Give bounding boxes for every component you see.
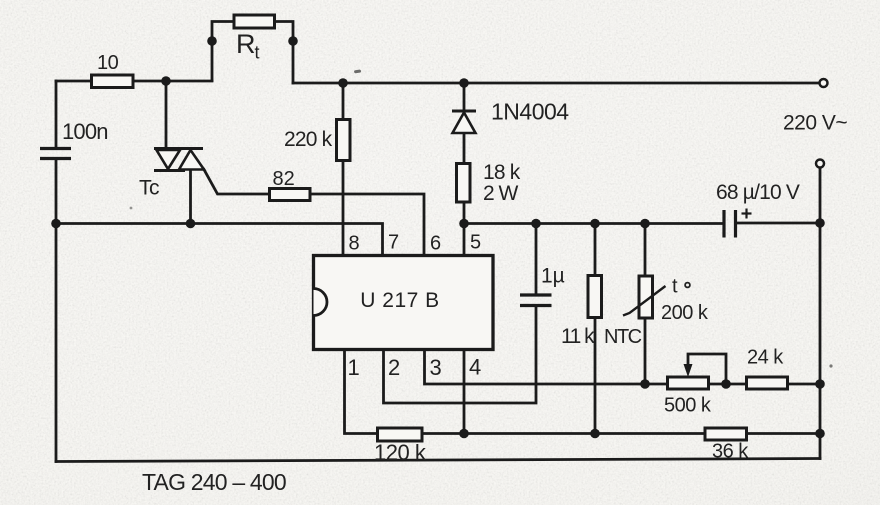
IC U217B body	[314, 256, 494, 350]
wire diode column / 18k / pin 5	[463, 83, 466, 256]
svg-text:10: 10	[97, 52, 119, 74]
capacitor 68u plus sign	[742, 209, 752, 219]
node Rt left	[207, 36, 217, 46]
IC U217B notch	[314, 289, 328, 316]
svg-text:Tc: Tc	[139, 177, 159, 200]
node NTC bottom	[640, 379, 650, 389]
capacitor 68u plates	[724, 210, 736, 238]
node right rail row 433	[815, 429, 825, 439]
wire bottom rail	[56, 459, 820, 462]
wire triac MT2	[165, 81, 168, 149]
svg-text:11 k: 11 k	[561, 325, 595, 348]
wire 1u capacitor top	[535, 224, 538, 295]
capacitor 1u plates	[520, 295, 552, 306]
svg-text:200 k: 200 k	[661, 302, 709, 324]
thermistor NTC 200k body	[639, 276, 653, 318]
node diode top	[459, 78, 469, 88]
wire 1u capacitor bottom to pin 2	[384, 306, 537, 404]
svg-text:220 k: 220 k	[284, 128, 333, 151]
node pin 4 bottom	[459, 429, 469, 439]
wire 68u capacitor to right rail	[737, 222, 821, 225]
potentiometer 500k body	[668, 377, 709, 389]
node right rail / 68u	[815, 218, 825, 228]
svg-text:3: 3	[430, 355, 442, 380]
wire left rail to pin 7	[56, 224, 383, 257]
wire pin 1 to bottom 120k / 36k row	[345, 349, 821, 434]
node 1u top	[531, 219, 541, 229]
wire left vertical below capacitor C 100n	[55, 159, 58, 462]
svg-text:36 k: 36 k	[712, 441, 749, 463]
node wiper / 24k	[721, 379, 731, 389]
resistor 10	[92, 75, 134, 88]
svg-text:t: t	[672, 276, 678, 298]
svg-text:2 W: 2 W	[483, 182, 519, 205]
diode 1N4004 triangle	[453, 113, 476, 134]
node pin 5	[459, 219, 469, 229]
resistor 36k	[705, 428, 747, 440]
svg-text:8: 8	[349, 233, 360, 255]
wire triac MT1	[189, 170, 192, 224]
svg-text:7: 7	[388, 232, 399, 254]
svg-text:500 k: 500 k	[664, 395, 712, 417]
svg-text:120 k: 120 k	[374, 440, 427, 465]
wire top-left horizontal to resistor 10	[56, 80, 212, 83]
wire potentiometer wiper	[688, 354, 726, 384]
resistor 120k	[378, 428, 423, 441]
triac Tc right triangle	[179, 150, 204, 170]
svg-text:TAG 240 – 400: TAG 240 – 400	[142, 469, 286, 495]
svg-text:5: 5	[470, 232, 481, 254]
node 11k bottom	[590, 429, 600, 439]
svg-text:2: 2	[388, 355, 400, 380]
svg-text:100n: 100n	[62, 119, 108, 144]
svg-text:220 V~: 220 V~	[783, 112, 847, 135]
resistor 24k	[747, 377, 788, 389]
svg-text:NTC: NTC	[604, 326, 642, 348]
capacitor 100n plates	[40, 149, 71, 159]
node 11k top	[590, 219, 600, 229]
resistor 11k	[588, 276, 602, 318]
terminal 220V top	[820, 79, 828, 87]
wire right vertical rail	[819, 168, 822, 459]
svg-text:4: 4	[469, 355, 481, 380]
wire pin 3 row through 500k and 24k	[425, 349, 821, 384]
node NTC top	[640, 219, 650, 229]
resistor 82	[270, 189, 311, 201]
thermistor NTC diagonal stroke	[623, 286, 666, 316]
potentiometer 500k wiper arrowhead	[684, 364, 693, 377]
wire left vertical above capacitor C 100n	[55, 81, 58, 148]
terminal 220V bottom	[816, 160, 824, 168]
node resistor10 / triac / Rt	[161, 76, 171, 86]
triac Tc bottom bar	[154, 169, 185, 172]
svg-text:18 k: 18 k	[483, 161, 521, 184]
svg-text:t: t	[255, 43, 260, 63]
node Rt right	[288, 36, 298, 46]
resistor Rt	[234, 15, 275, 28]
resistor 220k	[337, 120, 351, 161]
svg-text:24 k: 24 k	[747, 347, 784, 369]
svg-text:1µ: 1µ	[541, 265, 565, 288]
svg-text:U 217 B: U 217 B	[360, 289, 439, 312]
node left rail / 100n	[51, 219, 61, 229]
wire top rail to 220V terminal	[293, 82, 820, 85]
svg-text:1: 1	[348, 355, 360, 380]
triac Tc left triangle	[157, 150, 181, 169]
wire pin 4 down	[463, 349, 466, 434]
svg-text:1N4004: 1N4004	[491, 99, 569, 125]
diode 1N4004 cathode bar	[452, 110, 476, 113]
triac Tc top bar	[154, 147, 203, 150]
wire Rt left leg	[212, 22, 293, 84]
svg-text:6: 6	[430, 233, 441, 255]
svg-text:R: R	[236, 29, 256, 59]
svg-text:68 µ/10 V: 68 µ/10 V	[716, 181, 800, 204]
wire 11k column	[594, 224, 597, 434]
wire 220k column / pin 8	[342, 83, 345, 256]
node triac MT1	[186, 219, 196, 229]
junction node dots	[51, 36, 825, 438]
wire right rail to 68u capacitor	[464, 222, 723, 225]
svg-text:82: 82	[273, 168, 295, 190]
wire gate through resistor 82 to pin 6	[204, 170, 424, 257]
resistor 18k 2W	[457, 164, 471, 203]
wire NTC column	[644, 224, 647, 385]
node right rail row 384	[815, 379, 825, 389]
node 220k top	[338, 78, 348, 88]
